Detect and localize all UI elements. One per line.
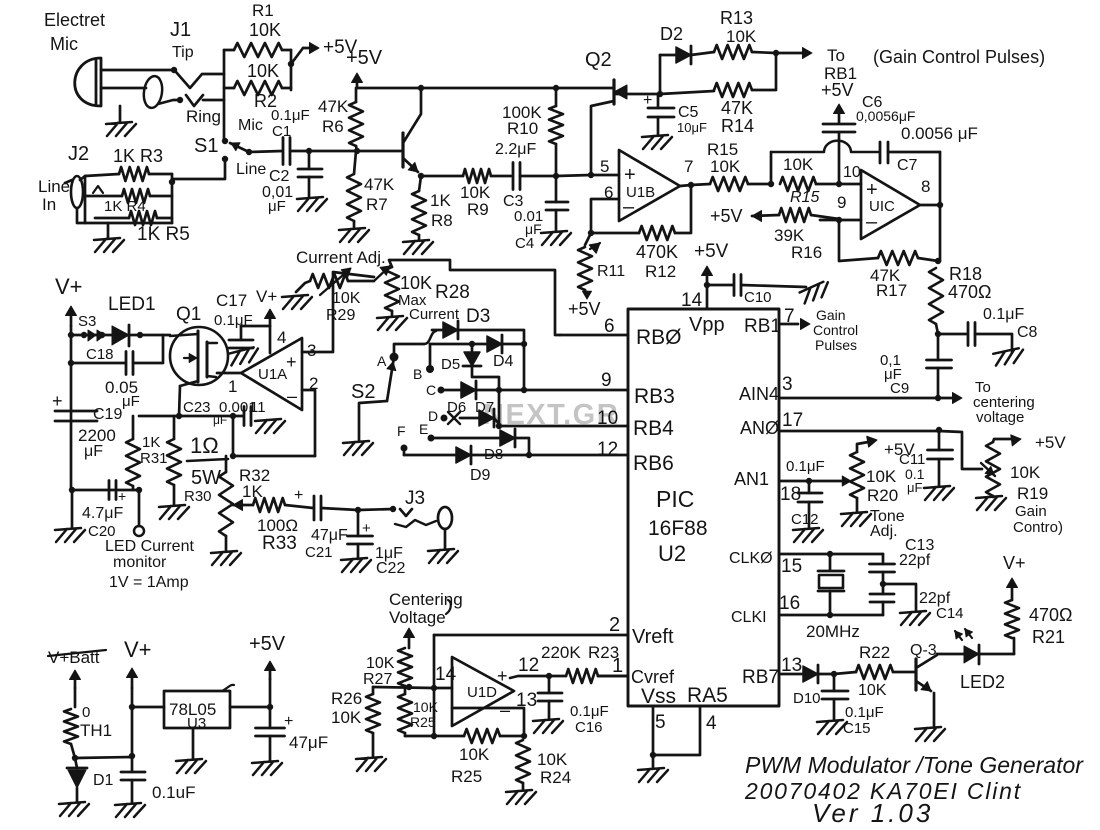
wire J2 ladder left rail	[84, 176, 87, 223]
svg-text:Mic: Mic	[50, 34, 78, 54]
svg-text:10K: 10K	[726, 27, 757, 46]
svg-text:R27: R27	[363, 671, 392, 688]
svg-text:Adj.: Adj.	[870, 523, 898, 540]
svg-text:Line: Line	[38, 177, 70, 196]
svg-text:2.2μF: 2.2μF	[495, 141, 536, 158]
capacitor C6	[823, 124, 855, 132]
svg-text:D: D	[428, 408, 438, 424]
wire J2 ladder bottom	[77, 208, 172, 223]
svg-text:4: 4	[706, 713, 717, 734]
svg-text:+: +	[286, 352, 297, 372]
svg-text:D9: D9	[470, 467, 491, 484]
svg-text:C12: C12	[791, 511, 819, 528]
svg-text:C: C	[426, 382, 436, 398]
svg-text:RB7: RB7	[742, 667, 779, 688]
svg-text:C2: C2	[269, 168, 290, 185]
svg-text:+: +	[362, 520, 371, 537]
svg-text:R25: R25	[451, 767, 482, 786]
led LED2	[937, 653, 964, 656]
svg-text:7: 7	[684, 157, 693, 176]
svg-text:+: +	[497, 666, 508, 686]
mic cable loop	[142, 75, 164, 109]
svg-text:+5V: +5V	[249, 633, 286, 655]
wire R32 top line	[232, 416, 235, 456]
svg-text:D2: D2	[660, 24, 683, 44]
resistor R7	[354, 151, 356, 174]
svg-text:U3: U3	[187, 715, 206, 732]
wire U1A pin2 to R32 line	[302, 390, 315, 456]
potentiometer R29	[296, 281, 310, 292]
svg-text:R10: R10	[507, 119, 538, 138]
wire V+ to regulator	[132, 706, 164, 709]
wire base line	[309, 150, 403, 153]
wire D2 left rail	[659, 55, 662, 94]
capacitor C3	[513, 163, 520, 190]
svg-text:R7: R7	[366, 195, 388, 214]
ground C4	[541, 231, 571, 245]
wire to RB1 gain control	[776, 52, 809, 55]
regulator U3 78L05	[164, 691, 230, 728]
wire S1 line contact	[172, 159, 225, 179]
svg-text:1K R5: 1K R5	[137, 224, 190, 245]
ground C20	[71, 490, 74, 528]
svg-text:R29: R29	[326, 307, 355, 324]
svg-text:0,0056μF: 0,0056μF	[856, 108, 915, 124]
svg-text:D10: D10	[793, 690, 821, 707]
svg-text:S3: S3	[78, 313, 96, 330]
resistor R21	[1013, 638, 1016, 654]
svg-text:J3: J3	[405, 488, 425, 509]
svg-text:12: 12	[597, 439, 618, 460]
wire R1 R2 right rail	[290, 50, 293, 90]
resistor R17 feedback	[839, 220, 878, 261]
capacitor C11	[936, 427, 942, 433]
svg-text:+: +	[624, 164, 636, 186]
svg-text:+5V: +5V	[1035, 433, 1066, 452]
svg-text:R6: R6	[322, 117, 344, 136]
svg-text:C21: C21	[305, 544, 333, 561]
wire U1D plus input	[434, 687, 452, 690]
svg-text:16: 16	[779, 593, 800, 614]
svg-text:Gain: Gain	[1015, 503, 1047, 520]
wire S1 common to C1	[249, 151, 282, 152]
op-amp U1B	[619, 150, 680, 221]
svg-text:RB1: RB1	[744, 316, 781, 337]
svg-text:1Ω: 1Ω	[190, 433, 219, 458]
ground R7	[339, 228, 369, 242]
svg-text:Q2: Q2	[585, 49, 612, 71]
svg-text:Vreft: Vreft	[632, 626, 674, 648]
svg-text:+: +	[118, 488, 126, 504]
wire U1C minus input	[820, 219, 861, 222]
crystal 20MHz	[827, 551, 833, 557]
svg-text:C23: C23	[183, 399, 211, 416]
transistor Q4	[401, 133, 404, 167]
svg-text:4: 4	[277, 328, 286, 347]
svg-text:(Gain Control Pulses): (Gain Control Pulses)	[873, 47, 1045, 67]
wire R29 to R28 wiper	[348, 280, 374, 283]
capacitor C10	[707, 284, 733, 287]
svg-text:Electret: Electret	[44, 10, 105, 30]
svg-text:15: 15	[781, 556, 802, 577]
potentiometer R11	[585, 233, 591, 245]
svg-text:–: –	[500, 700, 510, 720]
wire C3 node to U1B	[556, 175, 591, 176]
connector J3	[358, 509, 393, 510]
wire regulator output	[230, 706, 270, 709]
ground C12	[793, 528, 823, 542]
capacitor C20	[72, 489, 139, 492]
svg-text:LED Current: LED Current	[105, 538, 194, 555]
svg-text:R20: R20	[867, 486, 898, 505]
svg-text:R19: R19	[1017, 484, 1048, 503]
svg-text:1K R3: 1K R3	[113, 146, 163, 166]
ground C25	[252, 761, 282, 775]
led current monitor point	[138, 490, 141, 526]
capacitor C12	[806, 478, 812, 484]
wire source node line	[139, 415, 243, 418]
resistor R8	[419, 176, 421, 191]
svg-text:+5V: +5V	[568, 299, 601, 319]
svg-text:Voltage: Voltage	[389, 608, 446, 627]
wire J2 ladder right rail	[171, 174, 174, 223]
svg-text:12: 12	[518, 655, 539, 676]
power +5V top left	[291, 48, 303, 64]
capacitor C2	[308, 151, 311, 169]
svg-text:R12: R12	[645, 262, 676, 281]
svg-text:RB4: RB4	[633, 417, 674, 440]
svg-text:Tip: Tip	[172, 44, 194, 61]
svg-text:+: +	[643, 92, 652, 109]
svg-text:R8: R8	[431, 211, 453, 230]
ground Q3	[915, 727, 945, 741]
diode D1	[75, 758, 77, 768]
svg-text:5: 5	[655, 712, 666, 733]
svg-text:47K: 47K	[364, 175, 395, 194]
svg-text:U1D: U1D	[467, 684, 497, 701]
resistor R5	[95, 217, 129, 220]
power V+ pin4 U1A	[269, 312, 272, 326]
wire U1C plus input	[839, 183, 861, 186]
svg-text:Ring: Ring	[186, 107, 221, 126]
svg-text:5W: 5W	[191, 467, 221, 489]
ground J3	[428, 549, 458, 563]
svg-text:10K: 10K	[247, 61, 279, 81]
J1 tip contact	[171, 67, 177, 73]
capacitor C15	[833, 674, 836, 691]
svg-text:Control: Control	[813, 322, 858, 338]
wire R15 junction up	[770, 152, 773, 184]
svg-text:1K: 1K	[142, 434, 160, 451]
svg-text:R33: R33	[262, 533, 297, 554]
svg-text:47μF: 47μF	[311, 527, 348, 544]
wire emitter to R9	[421, 175, 463, 178]
ground C15	[817, 720, 847, 734]
svg-text:10K: 10K	[366, 655, 395, 672]
svg-text:22pf: 22pf	[899, 552, 931, 569]
wire U1D minus feedback	[452, 708, 524, 736]
svg-text:μF: μF	[84, 443, 103, 460]
resistor R9	[463, 169, 491, 183]
wire Q1 source down	[179, 386, 180, 416]
capacitor C4	[555, 176, 558, 202]
diode D10	[803, 666, 818, 682]
capacitor C14	[870, 594, 894, 602]
svg-text:RA5: RA5	[687, 684, 728, 707]
svg-text:PWM Modulator /Tone Generator: PWM Modulator /Tone Generator	[745, 752, 1084, 778]
svg-text:B: B	[413, 366, 422, 382]
svg-text:CLKI: CLKI	[731, 609, 767, 626]
svg-text:0.1uF: 0.1uF	[152, 783, 195, 802]
svg-text:LED1: LED1	[108, 294, 156, 315]
svg-text:Ver 1.03: Ver 1.03	[812, 798, 933, 828]
svg-text:10K: 10K	[866, 467, 897, 486]
wire Q2 collector	[591, 101, 614, 175]
wire U1B minus input	[591, 199, 619, 233]
svg-text:Mic: Mic	[238, 117, 263, 134]
svg-text:–: –	[866, 211, 878, 233]
svg-text:C16: C16	[575, 719, 603, 736]
svg-text:RBØ: RBØ	[636, 326, 682, 349]
svg-text:R16: R16	[791, 243, 822, 262]
svg-text:10: 10	[843, 164, 861, 181]
svg-text:R31: R31	[140, 450, 168, 467]
svg-text:μF: μF	[268, 198, 286, 215]
svg-text:V+: V+	[55, 274, 83, 299]
wire to centering voltage	[938, 397, 959, 400]
svg-text:D1: D1	[93, 772, 114, 789]
svg-text:470K: 470K	[636, 242, 678, 262]
svg-text:470Ω: 470Ω	[1029, 605, 1073, 625]
J1 ring contact	[177, 97, 183, 103]
svg-text:10μF: 10μF	[677, 120, 707, 135]
wire D4 row to pin9	[523, 344, 526, 390]
ground C2	[297, 197, 327, 211]
svg-text:V+: V+	[124, 637, 152, 662]
svg-text:–: –	[287, 386, 297, 406]
svg-text:C18: C18	[86, 346, 114, 363]
svg-text:10K: 10K	[331, 708, 362, 727]
ground D1	[59, 802, 89, 816]
svg-text:Pulses: Pulses	[815, 337, 857, 353]
wire Q2 base line	[614, 93, 660, 96]
wire mic tip	[101, 69, 174, 72]
svg-text:+: +	[52, 391, 63, 411]
svg-text:0.0056 μF: 0.0056 μF	[901, 124, 978, 143]
svg-text:C9: C9	[890, 380, 909, 397]
svg-text:J2: J2	[68, 143, 89, 165]
ground R20	[841, 512, 871, 526]
svg-text:9: 9	[837, 193, 846, 212]
svg-text:0.1μF: 0.1μF	[786, 458, 825, 475]
svg-text:4.7μF: 4.7μF	[82, 505, 123, 522]
svg-text:F: F	[397, 423, 406, 439]
svg-text:3: 3	[307, 341, 316, 360]
ground C24	[115, 803, 145, 817]
svg-text:Current Adj.: Current Adj.	[296, 248, 386, 267]
wire R1 R2 left rail	[223, 50, 226, 141]
svg-text:V+: V+	[1003, 553, 1026, 573]
svg-text:D7: D7	[475, 399, 494, 416]
svg-text:Gain: Gain	[816, 307, 846, 323]
svg-text:0.1μF: 0.1μF	[845, 704, 884, 721]
svg-text:0.1μF: 0.1μF	[570, 703, 609, 720]
svg-text:R23: R23	[588, 643, 619, 662]
svg-text:2: 2	[609, 614, 620, 636]
wire U1B output	[680, 185, 691, 186]
svg-text:CLKØ: CLKØ	[729, 550, 773, 567]
svg-text:A: A	[377, 353, 387, 369]
resistor R26	[372, 687, 375, 694]
svg-text:R14: R14	[721, 116, 754, 136]
svg-text:47μF: 47μF	[289, 733, 328, 752]
wire U1A pin3 to current adj	[302, 272, 374, 352]
capacitor C21	[314, 496, 321, 520]
svg-text:R21: R21	[1032, 627, 1065, 647]
svg-text:10K: 10K	[1010, 463, 1041, 482]
ground S2	[343, 441, 373, 455]
svg-text:Q1: Q1	[176, 304, 201, 325]
ground Vss	[652, 755, 655, 768]
svg-text:+5V: +5V	[346, 47, 383, 69]
wire C7 right rail	[939, 152, 942, 261]
svg-text:10K: 10K	[858, 682, 887, 699]
ground R19	[976, 496, 1006, 510]
svg-text:C1: C1	[272, 123, 291, 140]
svg-text:Contro): Contro)	[1013, 519, 1063, 536]
svg-text:R1: R1	[252, 1, 274, 20]
capacitor C7	[880, 142, 888, 163]
svg-text:U1A: U1A	[258, 366, 287, 383]
resistor R12 feedback	[591, 232, 639, 235]
svg-text:C5: C5	[678, 104, 699, 121]
IC U2 PIC16F88 body	[628, 309, 779, 706]
op-amp U1A	[241, 338, 302, 410]
svg-text:5: 5	[600, 157, 609, 176]
svg-text:E: E	[419, 421, 428, 437]
svg-text:C7: C7	[897, 157, 918, 174]
svg-text:R28: R28	[435, 282, 470, 303]
svg-text:μF: μF	[907, 480, 922, 495]
wire U1B plus input	[591, 174, 619, 177]
wire C6 down to pin10	[838, 132, 841, 184]
svg-text:10K: 10K	[332, 290, 361, 307]
resistor R31	[132, 416, 135, 439]
svg-text:10K: 10K	[249, 20, 281, 40]
svg-text:17: 17	[782, 410, 803, 431]
svg-text:R9: R9	[467, 200, 489, 219]
svg-text:C19: C19	[93, 406, 122, 423]
diode D5	[471, 344, 474, 352]
ground R26	[356, 757, 386, 771]
svg-text:0: 0	[82, 704, 90, 721]
wire Vreft feedback rail	[433, 635, 436, 736]
svg-text:10K: 10K	[537, 750, 568, 769]
svg-text:10K: 10K	[400, 273, 432, 293]
ground R29	[282, 295, 312, 309]
svg-text:0.1μF: 0.1μF	[983, 306, 1024, 323]
svg-text:C14: C14	[936, 605, 964, 622]
svg-text:C22: C22	[376, 560, 405, 577]
svg-text:+: +	[294, 487, 303, 504]
svg-text:R17: R17	[876, 281, 907, 300]
svg-text:8: 8	[921, 177, 930, 196]
capacitor C8	[938, 333, 966, 336]
wire S2 pole up	[394, 344, 424, 357]
svg-text:D5: D5	[441, 356, 460, 373]
svg-text:AIN4: AIN4	[739, 384, 779, 404]
svg-text:Vpp: Vpp	[689, 314, 725, 336]
svg-text:10K: 10K	[710, 157, 741, 176]
ground C16	[533, 719, 563, 733]
svg-text:To: To	[827, 46, 845, 65]
svg-text:In: In	[42, 195, 56, 214]
svg-text:R15: R15	[790, 189, 819, 206]
svg-text:+5V: +5V	[710, 206, 743, 226]
svg-text:470Ω: 470Ω	[948, 282, 992, 302]
resistor R24	[516, 740, 530, 783]
svg-text:+5V: +5V	[821, 80, 854, 100]
ground crystal caps	[883, 584, 916, 611]
svg-text:AN1: AN1	[734, 469, 769, 489]
wire S2 arm to ground	[359, 401, 387, 441]
capacitor C16	[548, 676, 551, 693]
resistor R25 feedback	[405, 735, 464, 738]
svg-text:R30: R30	[184, 488, 212, 505]
svg-text:D3: D3	[466, 306, 490, 327]
svg-text:1V = 1Amp: 1V = 1Amp	[109, 574, 189, 591]
svg-text:0.1μF: 0.1μF	[271, 107, 310, 124]
svg-text:220K: 220K	[541, 643, 581, 662]
svg-text:D8: D8	[484, 446, 503, 463]
svg-text:monitor: monitor	[113, 554, 167, 571]
resistor R4	[85, 195, 122, 198]
svg-text:+5V: +5V	[694, 241, 729, 262]
svg-text:S2: S2	[351, 381, 375, 403]
svg-text:R11: R11	[597, 263, 625, 280]
potentiometer R27	[408, 632, 411, 648]
wire loop to ring contact	[158, 100, 180, 104]
electret mic symbol	[75, 58, 101, 106]
capacitor C9	[937, 334, 940, 360]
svg-text:Vss: Vss	[641, 685, 676, 708]
svg-text:3: 3	[782, 374, 793, 395]
wire +5V rail	[357, 87, 613, 90]
ground R32	[211, 551, 241, 565]
resistor R14	[660, 91, 714, 94]
svg-text:R24: R24	[540, 768, 571, 787]
svg-text:14: 14	[681, 290, 703, 311]
ground R28	[377, 316, 407, 330]
capacitor C13	[882, 554, 885, 564]
svg-text:10K: 10K	[783, 155, 814, 174]
svg-text:16F88: 16F88	[648, 517, 708, 540]
svg-text:C10: C10	[744, 289, 772, 306]
svg-text:Cvref: Cvref	[631, 667, 675, 687]
svg-text:V+: V+	[256, 287, 277, 306]
svg-text:C8: C8	[1017, 324, 1038, 341]
svg-text:LED2: LED2	[960, 672, 1005, 692]
svg-text:–: –	[623, 196, 635, 218]
svg-text:47K: 47K	[721, 98, 753, 118]
svg-text:RB3: RB3	[634, 385, 675, 408]
wire U1D output	[510, 676, 566, 678]
svg-text:PIC: PIC	[656, 486, 694, 512]
resistor R30	[173, 416, 176, 439]
ground U3	[192, 728, 195, 759]
svg-text:1K: 1K	[430, 191, 451, 210]
svg-text:1K: 1K	[242, 482, 263, 501]
